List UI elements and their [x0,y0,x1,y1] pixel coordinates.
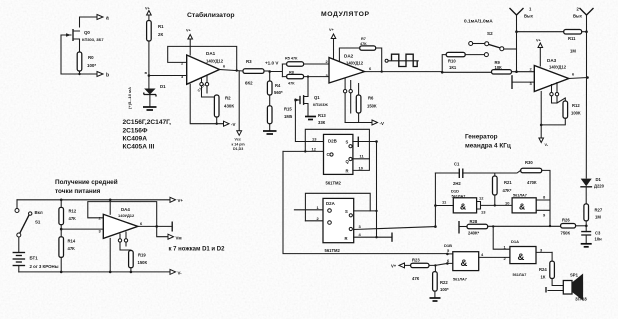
switch S1 [15,200,43,237]
speaker SP1 [546,273,587,302]
capacitor C1 2H2 [435,162,494,187]
balance pins DA4 [118,232,131,250]
svg-text:140УД12: 140УД12 [206,59,224,64]
svg-text:R1: R1 [158,24,164,29]
resistor R19 150K [129,251,148,272]
DA4 feedback [88,202,157,227]
svg-text:R23: R23 [412,258,420,263]
svg-text:R13: R13 [318,113,326,118]
svg-text:13: 13 [481,210,486,215]
svg-text:R14: R14 [68,239,76,244]
resistor R3 [243,59,270,86]
svg-text:R28: R28 [470,219,478,224]
svg-text:R11: R11 [568,36,576,41]
svg-text:S: S [346,140,349,145]
resistor R12 47K [59,200,77,229]
svg-text:47К*: 47К* [503,188,512,193]
svg-text:R5 47К: R5 47К [285,57,298,61]
Vcc tap to pin 14 of D1,D3 [232,71,245,151]
svg-text:560*: 560* [274,90,283,95]
wire loop around D2A [305,193,370,221]
svg-text:D1: D1 [596,177,602,182]
svg-text:2С156Г,2С147Г,: 2С156Г,2С147Г, [123,119,172,126]
svg-text:Получение средней: Получение средней [55,178,118,186]
svg-text:-V: -V [231,122,235,127]
balance pins DA3 [550,83,559,104]
svg-text:D2B: D2B [328,139,337,144]
-V rail of DA2 [345,122,371,124]
svg-text:R27: R27 [595,208,603,213]
DA2 output wire [366,71,443,73]
svg-text:R3: R3 [246,59,252,64]
NAND gate D1D 561ЛА7 [435,189,512,215]
resistor R1 2K [147,21,165,76]
svg-text:47К: 47К [68,246,76,251]
transistor Q1 [294,75,328,115]
svg-text:47К: 47К [69,216,77,221]
antenna 1 Вых [510,7,534,32]
svg-text:R26: R26 [562,218,570,223]
svg-text:47К: 47К [360,42,367,46]
svg-text:R6: R6 [368,96,374,101]
svg-text:750К: 750К [561,231,571,236]
svg-text:ЗП-18: ЗП-18 [575,297,587,302]
resistor R21 47K* [493,173,513,205]
svg-text:D2A: D2A [326,201,336,206]
svg-text:Генератор: Генератор [465,134,498,141]
svg-text:V-: V- [178,270,183,275]
op-amp DA3 [530,58,576,92]
svg-text:561ЛА7: 561ЛА7 [453,278,467,282]
svg-text:Стабилизатор: Стабилизатор [187,11,235,19]
vertical rail D2B S to D2A R [376,142,378,238]
svg-text:S: S [345,209,348,214]
svg-text:Q1: Q1 [314,95,320,100]
Vм tap [157,226,168,236]
svg-text:561ТМ2: 561ТМ2 [326,181,342,186]
ground under R22 [430,297,441,299]
svg-text:12: 12 [479,196,484,201]
wire node b to pin 3 [149,75,187,77]
resistor R7 47K feedback [338,37,382,72]
D2A pin 1 wire [294,209,323,211]
svg-text:13: 13 [312,137,317,142]
terminal + resistor R28 240K* [459,219,561,236]
svg-text:КС405А III: КС405А III [123,144,155,151]
D2B pin 13 wire from Q1 gate [295,100,323,142]
svg-text:S2: S2 [487,31,493,36]
svg-text:С1: С1 [454,162,460,167]
rail antenna1 to DA3 input [516,32,518,72]
switch S2 contacts [469,42,517,57]
V+ arrow DA3 [536,39,543,67]
ground under D1 [143,106,157,108]
svg-text:&: & [518,252,525,263]
V- bottom rail [19,271,170,273]
svg-text:&: & [461,258,468,269]
svg-text:1М5: 1М5 [284,114,293,119]
svg-text:2К: 2К [158,32,163,37]
svg-text:a: a [106,16,109,22]
D2A pin 2 wire and loop [305,220,323,222]
svg-text:R4: R4 [275,83,281,88]
D2B pin 11 wire [353,158,370,160]
op-amp DA1 V+ arrow [186,29,193,56]
resistor R30 470K [495,160,550,226]
svg-text:DA4: DA4 [121,207,130,212]
D2A output pin 3 long wire [354,227,436,230]
V+ supply arrow [145,7,151,21]
C1 left rail down to D1D output / D2A [434,173,436,227]
resistor R24 [539,252,563,285]
square wave symbol [385,54,418,66]
svg-text:R30: R30 [525,160,533,165]
svg-text:2 ог 3 КРОНы: 2 ог 3 КРОНы [30,264,59,269]
resistor R22 100* [433,265,449,297]
resistor R6 150K [356,84,377,123]
ground under C3 [581,243,592,245]
svg-text:Вых: Вых [524,14,534,19]
resistor R8 47K [282,70,329,85]
svg-text:С3: С3 [595,231,601,236]
svg-text:561ТМ2: 561ТМ2 [325,248,341,253]
svg-text:Вых: Вых [573,14,583,19]
svg-text:КП103Ж: КП103Ж [313,103,328,107]
svg-text:-V: -V [380,121,384,126]
svg-text:S1: S1 [35,220,41,225]
svg-text:R15: R15 [284,107,292,112]
-V rail of DA1 [190,84,222,123]
svg-text:МОДУЛЯТОР: МОДУЛЯТОР [321,11,370,18]
svg-text:+1.0 V: +1.0 V [265,61,279,66]
DA4 V- stub [109,238,111,272]
resistor R27 [584,204,603,226]
D2A S pin wire [354,210,377,212]
svg-text:D1: D1 [160,84,166,89]
svg-text:(+)5...10 мА: (+)5...10 мА [127,87,132,109]
svg-text:R22: R22 [440,280,448,285]
svg-text:Q0: Q0 [84,30,90,35]
diode D1 right column [580,177,604,204]
svg-text:R24: R24 [539,267,547,272]
svg-text:R8: R8 [289,70,294,74]
capacitor C3 10n [581,226,602,243]
svg-text:33К: 33К [318,120,326,125]
svg-text:2Н2: 2Н2 [453,181,461,186]
D2A R pin wire with terminal [354,236,392,238]
svg-text:V+: V+ [186,29,192,33]
svg-text:47К: 47К [412,276,420,281]
svg-text:100К: 100К [571,111,581,116]
svg-text:D1,D3: D1,D3 [233,147,243,151]
svg-text:150К: 150К [138,260,148,265]
svg-text:470К: 470К [527,180,537,185]
resistor R26 750K [561,218,588,236]
resistor R14 47K [59,229,76,272]
svg-text:V+: V+ [329,28,335,32]
svg-text:R7: R7 [361,37,366,41]
resistor R11 1M [515,30,588,54]
svg-text:DA3: DA3 [547,58,557,63]
svg-text:точки питания: точки питания [55,188,101,195]
svg-text:Vм: Vм [176,235,182,240]
svg-text:561ЛА7: 561ЛА7 [513,273,527,277]
svg-text:Vcc: Vcc [235,138,241,142]
node +1.0 V [268,70,271,73]
svg-text:100*: 100* [87,63,96,68]
antenna 2 Вых [573,7,594,32]
svg-text:R: R [346,169,349,174]
transistor Q0 [61,29,104,52]
svg-text:к 14 pin: к 14 pin [232,142,245,146]
ground under R4/R15 divider [263,130,277,132]
svg-text:140УД12: 140УД12 [346,61,364,66]
DA1 output wire [220,70,244,72]
svg-text:10н: 10н [595,237,603,242]
svg-text:V+: V+ [536,39,542,43]
resistor R4 560* [267,72,283,106]
svg-text:240К*: 240К* [468,231,480,236]
resistor R15 1M5 [267,106,292,131]
svg-text:меандра 4 КГц: меандра 4 КГц [465,143,511,150]
svg-text:R2: R2 [225,96,231,101]
svg-text:100*: 100* [440,287,449,292]
svg-text:1М: 1М [570,49,576,54]
V+ top rail [17,199,170,201]
node b junction [148,74,151,77]
svg-text:6К2: 6К2 [245,81,253,86]
svg-text:D1D: D1D [451,189,459,194]
svg-text:SP1: SP1 [570,273,579,278]
svg-text:150К: 150К [367,104,377,109]
DA4 output [138,225,171,227]
svg-text:R21: R21 [504,180,512,185]
svg-text:БТ1: БТ1 [30,256,39,261]
svg-text:R0: R0 [88,55,94,60]
DA3 output [569,78,588,79]
battery BT1 [13,237,59,272]
node b terminal and wire [61,35,96,74]
balance pins DA2 and R6 [343,79,352,123]
svg-text:DA1: DA1 [206,51,216,56]
-V arrow DA3 [539,92,549,148]
svg-text:561ЛА7: 561ЛА7 [513,194,527,198]
svg-text:Д220: Д220 [594,184,605,189]
svg-text:140УД12: 140УД12 [118,213,135,218]
V+ arrow DA2 [329,28,336,60]
svg-text:D1A: D1A [511,239,519,244]
svg-text:1К1: 1К1 [449,65,457,70]
wire loop around D2B [305,129,369,170]
svg-text:R10: R10 [448,59,456,64]
svg-text:1М: 1М [595,215,601,220]
resistor R12 100K [541,98,581,125]
capacitor input pin 3 DA3 [511,75,513,89]
svg-text:R12: R12 [69,209,77,214]
svg-text:&: & [460,202,466,212]
resistor R10 [442,52,484,72]
rail DA3 out down right side [586,32,587,178]
svg-text:10: 10 [505,201,510,206]
node a terminal [80,17,97,27]
svg-text:10К: 10К [495,65,503,70]
resistor R5 47K [282,57,330,67]
NAND gate D1A 561ЛА7 [493,226,552,277]
balance pins DA1 [197,76,217,97]
svg-text:&: & [519,202,525,212]
svg-text:1К: 1К [541,275,546,280]
svg-text:10: 10 [359,166,364,171]
NAND gate D1C 561ЛА7 [505,194,550,218]
svg-text:V+: V+ [178,198,184,203]
NAND gate D1B 561ЛА7 [444,243,510,282]
svg-text:2С156Ф: 2С156Ф [123,128,148,135]
svg-text:к 7 ножкам D1 и D2: к 7 ножкам D1 и D2 [169,247,226,253]
svg-text:140УД12: 140УД12 [549,65,567,70]
svg-text:Вкл: Вкл [35,210,43,215]
svg-text:12: 12 [312,147,317,152]
svg-text:430К: 430К [224,104,234,109]
svg-text:b: b [106,73,109,79]
op-amp DA4 [61,200,143,239]
svg-text:КП303, 3Б7: КП303, 3Б7 [82,37,104,42]
svg-text:0.1мА/1.0мА: 0.1мА/1.0мА [464,19,493,25]
ground under Q1 [305,116,316,118]
svg-text:R19: R19 [138,253,146,258]
feedback wire DA1 [168,46,237,70]
op-amp DA2 [326,54,373,84]
zener diode D1 [144,76,166,107]
svg-text:V+: V+ [145,7,151,11]
svg-text:R12: R12 [572,103,580,108]
resistor R0 [77,52,96,74]
svg-text:DA2: DA2 [344,54,354,59]
svg-text:47К: 47К [288,82,295,86]
D2B pin 12 wire and loop [283,150,324,152]
long feedback rail left [283,151,447,253]
svg-text:R: R [345,236,348,241]
svg-text:КС409А: КС409А [123,136,148,143]
resistor R2 430K [214,95,234,124]
D2B S pin wire with cap [353,141,377,143]
op-amp DA1 [181,51,226,84]
svg-text:V+: V+ [391,264,397,269]
resistor R9 10K [442,60,534,74]
input V+ / R23 [391,258,447,282]
